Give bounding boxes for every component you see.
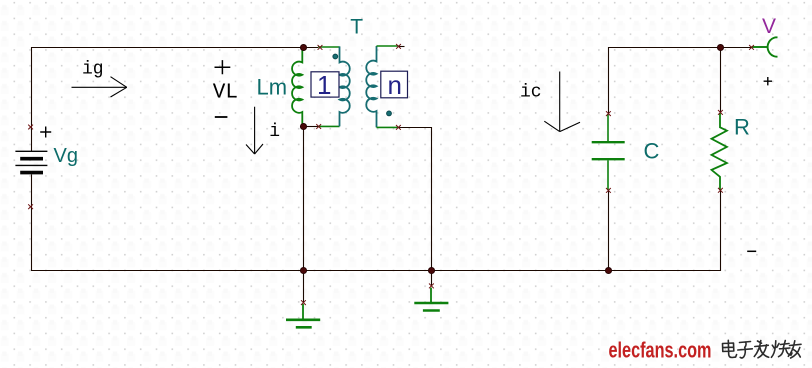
svg-text:1: 1: [317, 70, 331, 100]
svg-text:V: V: [762, 15, 776, 38]
transformer ratio box n: [381, 71, 408, 98]
transformer U primary pin top: [318, 46, 340, 48]
wire R branch bottom: [720, 190, 722, 271]
label minus VL: [215, 116, 228, 118]
transformer secondary pin top: [377, 45, 399, 47]
svg-text:n: n: [388, 70, 402, 100]
resistor R: [712, 113, 727, 190]
transformer primary pin bottom: [318, 125, 340, 127]
battery plate long 2: [15, 164, 47, 166]
wire ground2 stub: [431, 271, 433, 287]
wire left vertical upper: [31, 47, 33, 127]
svg-text:R: R: [734, 115, 750, 140]
wire top rail left: [32, 47, 319, 49]
junction node B bottom of Lm: [300, 123, 306, 129]
svg-text:Vg: Vg: [54, 145, 78, 167]
inductor Lm: [292, 47, 302, 126]
capacitor C plate top: [592, 141, 625, 143]
wire left vertical lower: [31, 207, 33, 271]
label plus VL: [215, 60, 231, 74]
battery plate long 1: [15, 150, 47, 152]
wire R branch top: [720, 48, 722, 113]
transformer T primary coil: [340, 46, 350, 126]
current arrow i: [246, 107, 263, 154]
ground 2: [414, 288, 448, 311]
wire secondary bottom to rail: [398, 128, 431, 271]
output plus sign: [764, 77, 772, 85]
wire node B horizontal stub: [304, 126, 319, 128]
ground 1: [286, 304, 320, 327]
svg-text:elecfans.com: elecfans.com: [609, 338, 712, 363]
wire bottom rail: [31, 270, 721, 272]
wire C branch top: [609, 48, 752, 114]
junction node V top right: [717, 44, 723, 50]
wire ground1 stub: [303, 271, 305, 303]
watermark chinese characters 电子发烧友: [723, 340, 802, 358]
output minus sign: [747, 250, 756, 252]
battery plate thick 1: [20, 157, 43, 161]
svg-text:ic: ic: [520, 83, 542, 103]
transformer secondary pin bottom: [377, 126, 399, 128]
svg-text:VL: VL: [213, 81, 238, 104]
transformer secondary phase dot: [387, 111, 392, 116]
capacitor pin bottom: [607, 160, 609, 190]
svg-text:T: T: [350, 16, 363, 39]
transformer ratio box 1: [311, 72, 339, 97]
current arrow ig: [72, 77, 127, 97]
pin x marks: [28, 44, 754, 305]
junction rail at x431: [428, 267, 434, 273]
svg-text:C: C: [644, 139, 660, 164]
battery plate thick 2: [20, 171, 43, 175]
svg-text:Lm: Lm: [257, 75, 288, 100]
transformer primary phase dot: [333, 54, 338, 59]
transformer T secondary coil: [366, 46, 376, 127]
capacitor C plate bottom: [592, 158, 625, 160]
output port V connector: [752, 37, 778, 56]
svg-text:i: i: [269, 122, 280, 142]
junction rail at x303: [300, 267, 306, 273]
wire C branch bottom: [608, 191, 610, 271]
capacitor pin top: [607, 114, 609, 141]
junction rail at x608: [605, 267, 611, 273]
voltage source Vg battery pin top: [31, 127, 33, 151]
current arrow ic: [544, 72, 580, 132]
svg-text:ig: ig: [82, 60, 104, 80]
wire secondary top open stub: [399, 46, 405, 48]
battery plus sign: [40, 127, 51, 138]
junction node A top: [300, 44, 306, 50]
battery pin bottom: [31, 175, 33, 208]
wire node B vertical: [303, 127, 305, 271]
